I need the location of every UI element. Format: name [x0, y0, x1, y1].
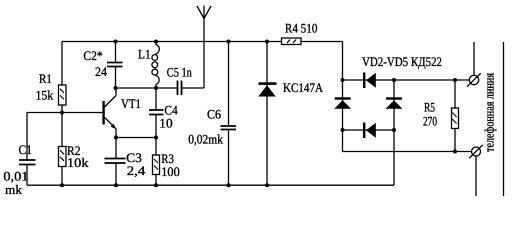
svg-text:10: 10	[159, 116, 172, 131]
wire R1 to base node	[61, 105, 63, 113]
bridge corner nodes	[341, 78, 345, 82]
capacitor C1	[26, 113, 28, 161]
diode VD4 (right, points up)	[386, 97, 402, 99]
node collector/C2	[114, 86, 118, 90]
svg-text:C5 1n: C5 1n	[167, 65, 192, 80]
svg-text:VD2-VD5 КД522: VD2-VD5 КД522	[362, 54, 442, 69]
svg-text:телефонная линия: телефонная линия	[482, 73, 497, 152]
wire top rail corner down to bridge	[342, 42, 344, 81]
diode VD5 (bottom, points left)	[363, 123, 365, 139]
svg-text:mk: mk	[5, 182, 22, 196]
wire bridge BL to lower right rail	[343, 130, 472, 152]
wire emitter line	[116, 137, 156, 139]
capacitor C3	[115, 138, 117, 159]
inductor L1	[155, 42, 157, 46]
svg-text:R4 510: R4 510	[285, 21, 318, 36]
bridge top rail wire	[343, 79, 395, 81]
svg-text:15k: 15k	[36, 88, 54, 103]
wire top rail	[62, 41, 343, 43]
bridge left wire	[342, 80, 344, 130]
wire top terminal up	[473, 42, 475, 75]
wire bridge TR to top terminal	[394, 79, 470, 81]
resistor R2	[61, 113, 63, 147]
svg-text:C2*: C2*	[83, 48, 102, 63]
svg-text:L1: L1	[138, 47, 151, 62]
svg-text:0,02mk: 0,02mk	[188, 132, 223, 147]
svg-text:270: 270	[423, 114, 437, 129]
svg-text:24: 24	[95, 64, 107, 79]
svg-text:C6: C6	[207, 107, 222, 122]
wire base line	[27, 112, 104, 114]
wire bottom terminal down	[475, 156, 477, 196]
capacitor C5	[178, 81, 182, 96]
wire bridge BR to bottom rail	[393, 130, 395, 185]
resistor R4	[282, 38, 302, 45]
wire bottom rail	[27, 184, 394, 186]
svg-text:R1: R1	[39, 71, 52, 86]
resistor R1	[59, 85, 67, 105]
capacitor C6	[228, 42, 230, 127]
svg-text:VT1: VT1	[121, 96, 141, 111]
resistor R5	[454, 80, 456, 108]
terminal bottom (circle with slash)	[472, 147, 481, 156]
terminal top (circle with slash)	[469, 75, 478, 84]
node base/R1/R2	[60, 111, 64, 115]
capacitor C2	[115, 42, 117, 63]
wire telephone line right conductor	[503, 42, 505, 196]
zener diode VD1 KC147A	[266, 42, 268, 186]
bridge bottom rail wire	[343, 129, 395, 131]
antenna	[203, 6, 205, 89]
diode VD2 (top, points left)	[363, 73, 365, 89]
svg-text:C1: C1	[19, 142, 33, 157]
svg-text:10k: 10k	[67, 155, 89, 170]
svg-text:KC147A: KC147A	[283, 80, 324, 95]
svg-text:2,4: 2,4	[127, 163, 146, 178]
svg-text:R5: R5	[424, 100, 435, 115]
wire R1 column	[61, 42, 63, 86]
transistor VT1	[102, 101, 104, 125]
svg-text:100: 100	[161, 164, 179, 179]
wire collector node line	[116, 87, 178, 89]
resistor R3	[155, 138, 157, 156]
bridge right wire	[393, 80, 395, 130]
capacitor C4	[155, 88, 157, 110]
diode VD3 (left, points up)	[335, 97, 351, 99]
node L1 bottom	[154, 86, 158, 90]
